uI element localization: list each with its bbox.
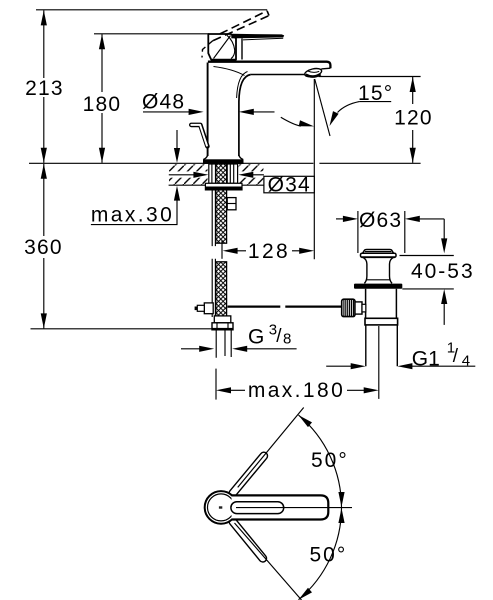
15 deg arc left <box>281 117 301 126</box>
dimension 120 line <box>412 77 414 104</box>
faucet spout bottom edge right of aerator <box>321 67 330 70</box>
svg-text:128: 128 <box>248 240 290 263</box>
lever underside line <box>243 38 283 40</box>
Ø34 leader right line <box>253 174 264 176</box>
dim Ø48 left line <box>143 111 190 113</box>
faucet spout top edge and tip <box>208 62 331 68</box>
drain knob connector <box>355 302 362 314</box>
G3/8 right line <box>246 348 296 350</box>
dashed lever tip <box>267 11 269 16</box>
svg-text:120: 120 <box>394 106 433 129</box>
shank right stack inner lines <box>230 164 233 183</box>
supply pipe lines <box>216 330 231 358</box>
50 deg extension line lower <box>235 523 302 600</box>
15 deg leader underline <box>359 101 391 103</box>
max.30 lower leader <box>91 200 177 225</box>
Ø34 leader left line <box>169 174 195 176</box>
max.180 dim line left <box>230 389 245 391</box>
svg-text:Ø48: Ø48 <box>142 91 185 114</box>
hatching counter right lower <box>239 178 264 185</box>
arrow 15 leader <box>330 111 339 126</box>
40-53 ext line lower <box>402 288 454 290</box>
arrow 15 arc <box>299 120 314 126</box>
svg-text:50°: 50° <box>310 543 348 566</box>
svg-text:max.180: max.180 <box>248 379 345 402</box>
G3/8 nut bottom dark <box>212 328 233 330</box>
max.30 upper arrow line <box>176 130 178 149</box>
arrow 180 top <box>99 34 105 49</box>
center tick <box>219 506 222 508</box>
top view lever outline <box>232 495 329 519</box>
arrow 120 bottom <box>410 148 416 163</box>
dashed pivot outline <box>202 41 213 58</box>
top view lever inner recess <box>231 502 284 514</box>
dimension 213 line <box>43 10 45 78</box>
Ø63 dim line right <box>419 218 444 220</box>
handle body crease <box>214 36 231 59</box>
max.180 left extension line <box>215 369 217 400</box>
threaded shank lower <box>216 262 227 323</box>
svg-text:G: G <box>248 325 264 348</box>
shank washer left <box>209 164 216 183</box>
dimension 360 line <box>43 164 45 236</box>
drain plug cap inner line <box>365 251 391 253</box>
swing arc upper <box>299 415 342 507</box>
arrow max.180 left <box>216 387 231 393</box>
G3/8 nut <box>212 323 233 330</box>
water stream 15 deg line <box>315 79 330 136</box>
hatching counter left lower <box>169 178 208 185</box>
top view body circle <box>205 491 238 524</box>
left fitting box 2 <box>197 305 204 311</box>
arrow 40-53 bottom <box>441 289 447 304</box>
arrow 213 bottom <box>41 148 47 163</box>
dim Ø48 right line <box>253 111 275 113</box>
drain knob knurl lines <box>344 299 354 316</box>
svg-text:360: 360 <box>24 236 63 259</box>
mounting nut <box>205 183 242 190</box>
drain plug cap <box>363 250 394 254</box>
svg-text:Ø63: Ø63 <box>359 209 402 232</box>
40-53 ext line upper <box>400 255 454 257</box>
faucet body left edge <box>207 63 209 157</box>
arrow arc bottom end <box>299 588 313 600</box>
base plate flare left <box>203 155 207 159</box>
left fitting box <box>204 303 213 314</box>
arrow 120 top <box>410 77 416 92</box>
handle lever bar <box>231 34 284 39</box>
extension line top (213 max height) <box>36 9 267 11</box>
svg-text:4: 4 <box>462 353 470 370</box>
arrow arc middle upper <box>338 492 344 507</box>
arrow 360 bottom <box>41 313 47 328</box>
arrow 128 left <box>223 248 238 254</box>
label G1 1/4 <box>412 340 470 371</box>
pull rod inner <box>191 125 207 146</box>
spout inner corner and body right edge <box>239 75 251 157</box>
arrow 213 top <box>41 10 47 25</box>
pull rod outline <box>191 125 207 146</box>
svg-text:/: / <box>453 346 459 367</box>
mounting nut dark bottom <box>205 187 242 190</box>
swing arc lower <box>299 507 342 599</box>
Ø63 extension lines <box>358 211 405 253</box>
arrow max.180 right <box>364 387 379 393</box>
top view centerline <box>236 507 352 509</box>
pop-up rod horizontal segment 2 <box>285 306 342 308</box>
40-53 bottom tail <box>443 303 445 325</box>
top view lever fill <box>232 495 329 519</box>
top view lower angled lever <box>233 522 263 559</box>
extension line 120 top <box>319 76 421 78</box>
svg-text:/: / <box>276 326 282 347</box>
drain plug flange <box>361 253 397 257</box>
dashed lever raised lower line <box>213 16 269 41</box>
arrow Ø63 left <box>343 216 358 222</box>
arrow 128 right <box>299 248 314 254</box>
extension line 360 bottom <box>31 328 214 330</box>
drain neck <box>363 257 394 283</box>
svg-text:max.30: max.30 <box>91 203 174 226</box>
threaded shank upper <box>216 164 227 243</box>
svg-text:40-53: 40-53 <box>411 260 475 283</box>
drain neck fillet line <box>367 279 390 281</box>
arrow max.30 top <box>174 148 180 163</box>
handle neck right line <box>241 38 243 59</box>
arrow arc top end <box>299 415 313 427</box>
counter top line right segment (120 ext) <box>319 162 420 164</box>
arrow max.30 bottom <box>174 186 180 201</box>
svg-text:Ø34: Ø34 <box>268 173 311 196</box>
pop-up rod horizontal segment 1 <box>228 306 281 308</box>
counter top line <box>29 162 313 164</box>
drain wide flange <box>354 284 402 289</box>
arrow G3/8 left <box>199 346 214 352</box>
dimension 128 axis line <box>221 241 223 259</box>
base plate <box>203 159 244 164</box>
hatching counter left upper <box>169 164 208 171</box>
arrow 40-53 top <box>441 238 447 253</box>
aerator <box>304 67 322 78</box>
top view upper angled lever <box>233 456 264 493</box>
body inner sketch curve 1 <box>214 67 245 76</box>
G1 1/4 dim line right <box>412 365 476 367</box>
G1 1/4 dim line left <box>326 365 351 367</box>
40-53 top tail <box>443 219 445 240</box>
hatching counter right upper <box>239 164 264 171</box>
drain plug flange bottom shadow <box>362 256 396 258</box>
shank collar <box>214 316 231 323</box>
Ø63 dim line left <box>336 218 344 220</box>
faucet spout bottom edge <box>251 74 306 76</box>
base plate flare right <box>239 155 243 159</box>
svg-text:50°: 50° <box>311 449 349 472</box>
arrow arc middle lower <box>338 508 344 523</box>
svg-text:8: 8 <box>283 331 291 348</box>
shank right stack <box>227 164 237 183</box>
handle body curve <box>227 35 235 58</box>
arrow 360 top <box>41 164 47 179</box>
top view inner circle <box>208 494 235 521</box>
drain body below flange <box>366 289 397 319</box>
15 deg leader curve <box>338 102 360 113</box>
svg-text:213: 213 <box>25 77 64 100</box>
hose left lower <box>212 259 215 317</box>
drain knob knurled <box>342 299 355 316</box>
arrow Ø48 left <box>189 109 204 115</box>
arrow G1 1/4 right <box>397 363 412 369</box>
arrow Ø34 right <box>238 172 253 178</box>
arrow 180 bottom <box>99 148 105 163</box>
shank washer left inner line <box>211 164 213 183</box>
max.180 dim line right <box>347 389 365 391</box>
label G 3/8 <box>248 322 291 349</box>
arrow Ø48 right <box>239 109 254 115</box>
body inner sketch curve 2 <box>237 72 248 99</box>
left fitting nub <box>195 307 198 311</box>
arrow G1 1/4 left <box>351 363 366 369</box>
Ø34 box <box>264 176 314 193</box>
drain tailpipe <box>366 325 398 366</box>
arrow G3/8 right <box>232 346 247 352</box>
drain centerline <box>378 326 380 399</box>
arrow Ø34 left <box>193 172 208 178</box>
drain knob connector step <box>362 304 366 312</box>
50 deg extension line upper <box>238 408 304 488</box>
dim 128 line <box>237 250 246 252</box>
side fitting <box>227 198 236 210</box>
G3/8 left line <box>181 348 200 350</box>
dashed lever raised upper line <box>220 11 267 34</box>
svg-text:180: 180 <box>83 93 122 116</box>
hose left upper <box>212 190 215 246</box>
G3/8 nut facets <box>217 323 228 330</box>
extension line 180 height <box>94 33 209 35</box>
side fitting inner line <box>227 203 236 205</box>
drain union nut <box>365 318 398 325</box>
vertical reference line from spout outlet <box>313 79 315 259</box>
counter bottom line <box>169 184 264 186</box>
svg-text:G1: G1 <box>412 347 440 370</box>
dimension 180 line <box>101 34 103 92</box>
arrow Ø63 right <box>405 216 420 222</box>
handle body <box>208 34 236 60</box>
